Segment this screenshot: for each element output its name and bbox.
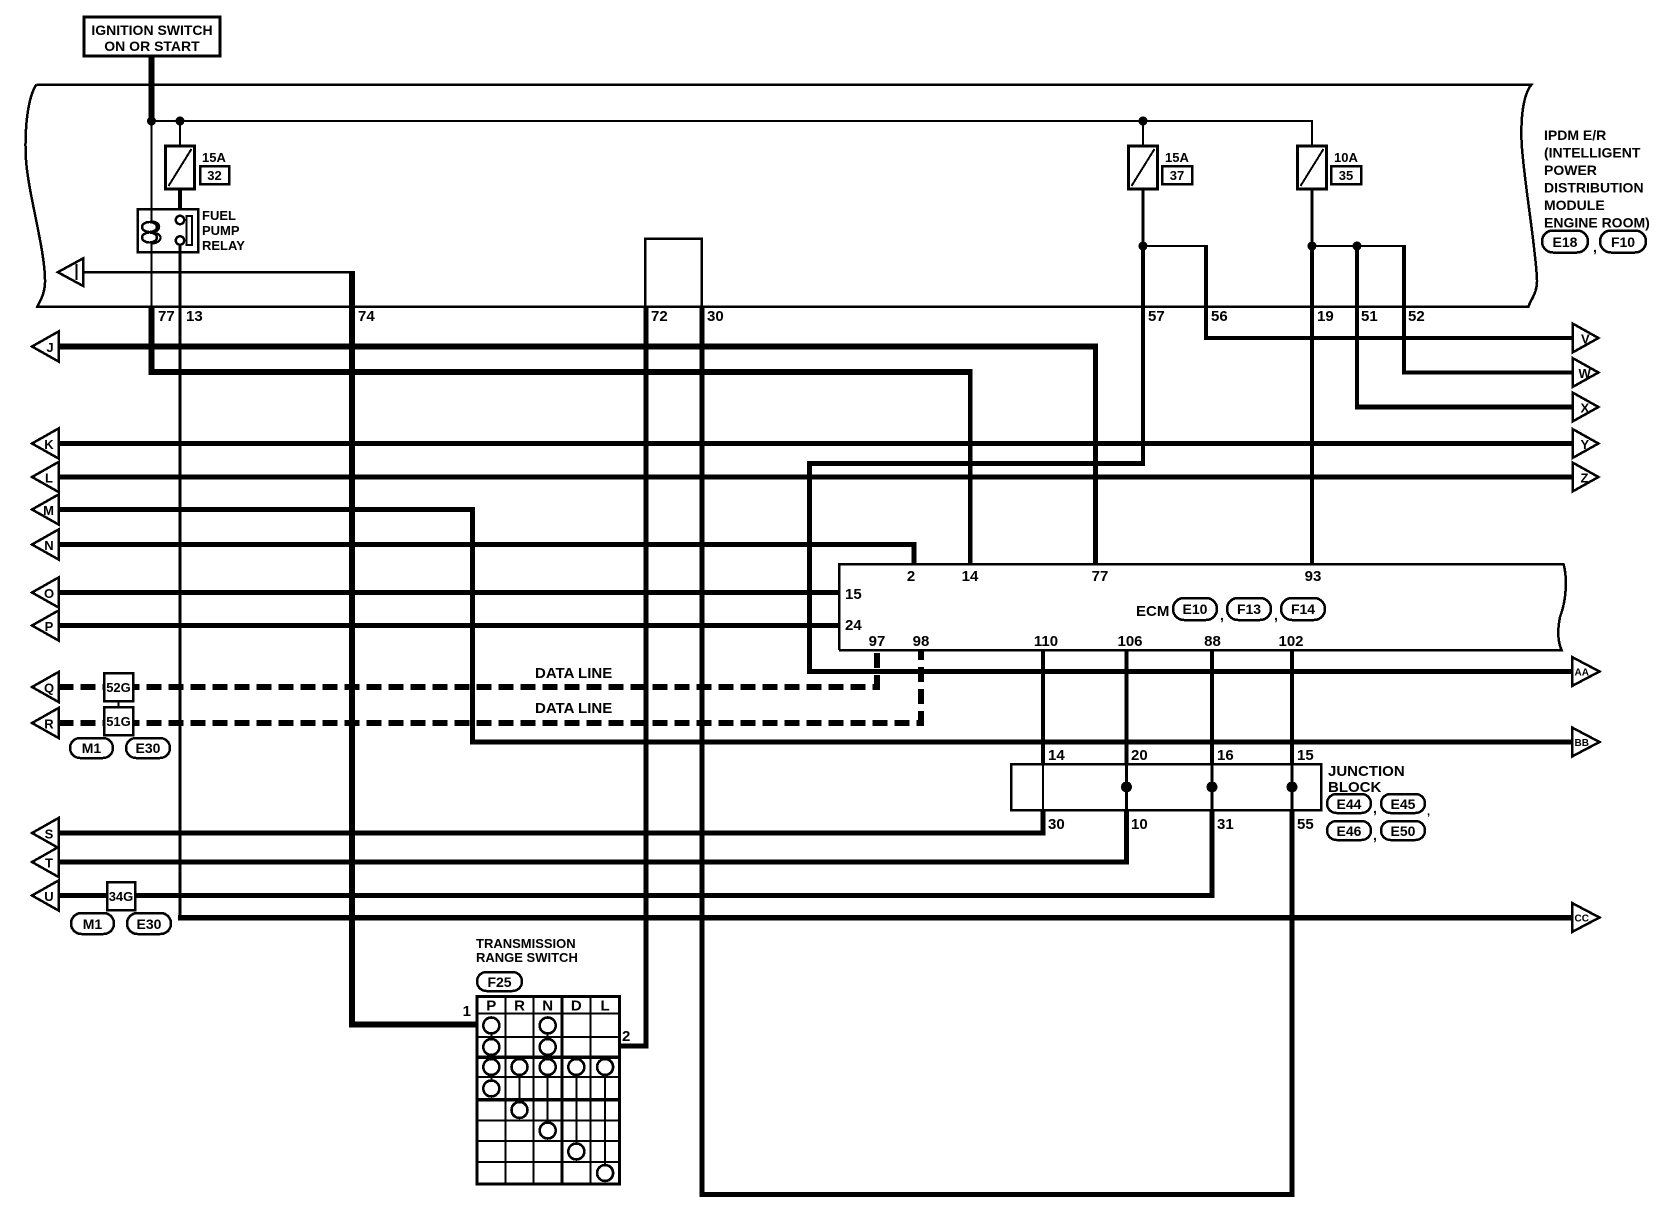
svg-text:14: 14 [962,568,979,585]
wire JB internal 16-31 [1211,764,1214,810]
IPDM bottom pin labels [158,308,1425,325]
wire 74 vertical [349,271,355,1027]
svg-text:P: P [45,619,54,634]
wire 30 vertical [700,307,705,1198]
svg-text:F10: F10 [1611,234,1635,250]
svg-text:F13: F13 [1237,601,1261,617]
wire BB horizontal [470,739,1574,744]
transmission range switch grid [477,997,620,1185]
wire U to JB pin 31 [59,893,1215,898]
wire 30 bottom horizontal [700,1192,1295,1197]
node junction dot ignition/bus [147,117,156,126]
connector L [32,462,59,492]
connector CC arrow [1572,903,1600,932]
wire JB internal 20-10 [1125,764,1128,810]
TRS column headers [486,998,609,1015]
ECM block outline [839,564,1566,650]
svg-text:ENGINE ROOM): ENGINE ROOM) [1544,215,1650,231]
svg-text:IPDM E/R: IPDM E/R [1544,127,1606,143]
svg-text:DATA LINE: DATA LINE [535,700,612,717]
ignition switch box [84,17,220,56]
svg-text:F14: F14 [1291,601,1315,617]
wire fuse37 down to node [1142,189,1145,246]
svg-text:14: 14 [1048,747,1065,764]
svg-text:P: P [486,998,496,1015]
svg-text:,: , [1274,607,1278,623]
connector oval E50 [1381,821,1425,840]
ECM bottom pin labels [869,633,1304,650]
svg-text:D: D [571,998,582,1015]
svg-text:RELAY: RELAY [202,238,245,253]
connector oval E46 [1327,821,1377,843]
svg-text:32: 32 [207,168,221,183]
connector J [32,332,59,362]
connector oval E30 (upper) [126,738,170,758]
svg-text:RANGE SWITCH: RANGE SWITCH [476,950,578,965]
svg-text:24: 24 [845,617,862,634]
svg-text:W: W [1579,366,1592,381]
node dot JB 20-10 [1121,782,1132,793]
label JUNCTION BLOCK [1328,763,1405,796]
wire T to JB pin 10 [59,860,1129,865]
wire 77 riser to ECM pin 14 [968,369,973,564]
svg-text:31: 31 [1217,816,1234,833]
svg-text:N: N [44,538,53,553]
wire 57 below IPDM [1141,307,1145,467]
wire 74 into TRS pin 1 [349,1022,477,1028]
connector BB arrow [1572,728,1600,757]
svg-text:U: U [44,889,53,904]
junction block outline [1011,764,1321,810]
svg-text:16: 16 [1217,747,1234,764]
svg-text:56: 56 [1211,308,1228,325]
svg-text:O: O [44,586,54,601]
svg-text:,: , [1373,827,1377,843]
connector Q [32,672,59,702]
svg-text:CC: CC [1575,914,1589,925]
wire O to ECM pin 15 [59,590,840,595]
svg-text:ON OR START: ON OR START [104,38,200,54]
wire 77 vertical below IPDM [149,307,155,376]
connector oval E30 (lower) [127,913,171,934]
svg-text:MODULE: MODULE [1544,197,1605,213]
svg-text:30: 30 [1048,816,1065,833]
connector V arrow [1573,324,1599,353]
svg-text:106: 106 [1117,633,1142,650]
svg-text:15A: 15A [1165,150,1189,165]
wire 56 to V arrow [1204,336,1574,340]
node junction dot 57/56 [1139,242,1148,251]
wire L to Z arrow [59,475,1575,480]
svg-text:52: 52 [1408,308,1425,325]
splice 51G box [104,707,133,735]
svg-text:,: , [1427,806,1430,818]
svg-text:X: X [1581,401,1590,416]
svg-text:97: 97 [869,633,886,650]
connector oval E10 [1173,598,1224,623]
svg-text:1: 1 [463,1003,471,1020]
svg-text:20: 20 [1131,747,1148,764]
connector oval E45 [1381,794,1430,818]
JB bottom pin labels [1048,816,1314,833]
svg-text:N: N [542,998,553,1015]
TRS contact circles [483,1018,613,1182]
svg-text:102: 102 [1278,633,1303,650]
svg-text:POWER: POWER [1544,162,1597,178]
connector Z arrow [1573,463,1599,492]
wire S to JB pin 30 [59,831,1046,836]
svg-text:2: 2 [622,1028,630,1045]
ECM left pin labels [845,586,862,634]
svg-text:,: , [1593,239,1597,255]
svg-text:DATA LINE: DATA LINE [535,665,612,682]
svg-text:51: 51 [1361,308,1378,325]
svg-text:V: V [1581,332,1590,347]
svg-text:10: 10 [1131,816,1148,833]
svg-text:E30: E30 [136,740,161,756]
wire 55 riser to junction block [1290,810,1295,1197]
svg-text:Z: Z [1581,471,1589,486]
wire Q data line (dashed) to ECM pin 97 [59,650,878,690]
svg-text:19: 19 [1317,308,1334,325]
svg-text:M1: M1 [82,740,102,756]
wire 13 relay to IPDM edge (thin) [179,244,182,307]
svg-text:35: 35 [1339,168,1353,183]
wire ignition feed riser [149,56,155,121]
svg-text:R: R [44,717,54,732]
splice 34G box [107,882,135,910]
svg-text:E10: E10 [1183,601,1208,617]
svg-text:110: 110 [1034,633,1058,650]
wire ECM 106 to JB pin 20 [1124,650,1128,764]
svg-text:E18: E18 [1553,234,1578,250]
svg-text:55: 55 [1297,816,1314,833]
svg-text:Y: Y [1581,437,1590,452]
connector R [32,708,59,738]
connector W arrow [1573,358,1599,387]
svg-text:51G: 51G [106,714,131,729]
svg-text:15: 15 [845,586,862,603]
svg-text:2: 2 [907,568,915,585]
wire N to ECM pin 2 [59,542,917,547]
IPDM label block [1544,127,1650,231]
wire AA horizontal [807,669,1574,674]
wire 77 coil return (thin, inside IPDM) [151,252,153,307]
wire P to ECM pin 24 [59,623,840,628]
svg-text:E50: E50 [1391,823,1416,839]
wire 19 vertical to ECM pin 93 [1310,246,1314,564]
svg-text:E46: E46 [1337,823,1362,839]
wire 51 to X arrow [1355,405,1574,410]
connector oval M1 (upper) [70,738,113,758]
svg-text:DISTRIBUTION: DISTRIBUTION [1544,180,1644,196]
svg-text:IGNITION SWITCH: IGNITION SWITCH [91,22,212,38]
wire fuse35 down to node [1311,189,1314,246]
connector T [32,847,59,877]
fuse 37 (15A) [1129,121,1193,189]
connector K [32,429,59,459]
connector oval E44 [1327,794,1377,816]
svg-text:S: S [45,827,54,842]
wire 57 horizontal to x810 [807,461,1145,466]
wire 51 vertical [1355,246,1359,410]
svg-text:J: J [46,340,53,355]
TRS contact links [491,1030,605,1168]
connector oval F10 [1600,231,1646,253]
wire 51/52 branch horizontal [1312,245,1406,247]
wire 56 vertical [1204,245,1208,338]
svg-text:34G: 34G [109,889,134,904]
svg-text:93: 93 [1305,568,1322,585]
connector P [32,611,59,641]
svg-text:72: 72 [651,308,668,325]
svg-text:M: M [43,503,54,518]
svg-text:77: 77 [1092,568,1109,585]
JB top pin labels [1048,747,1314,764]
svg-text:77: 77 [158,308,175,325]
node junction dot 51 [1353,242,1362,251]
svg-text:30: 30 [707,308,724,325]
wire J to ECM pin 77 [59,344,1099,350]
wire ECM 102 to JB pin 15 [1290,650,1294,764]
connector N [32,530,59,560]
svg-text:L: L [45,471,53,486]
splice 52G box [104,673,133,701]
svg-text:,: , [1220,607,1224,623]
svg-text:88: 88 [1204,633,1221,650]
fuse 35 (10A) [1298,121,1362,189]
wire 52 vertical [1402,245,1406,375]
node junction dot fuse37 tap [1139,117,1148,126]
wire 77 horizontal to ECM pin 14 [149,369,973,375]
connector oval F25 [477,972,522,991]
connector oval F13 [1227,598,1278,623]
svg-text:R: R [514,998,525,1015]
node junction dot fuse32 tap [176,117,185,126]
svg-text:10A: 10A [1334,150,1358,165]
svg-text:74: 74 [358,308,375,325]
connector S [32,818,59,848]
svg-text:ECM: ECM [1136,603,1169,620]
connector oval F14 [1281,598,1325,620]
wire JB internal 14-30 (thin) [1042,764,1044,810]
connector M [32,495,59,525]
svg-text:E45: E45 [1391,796,1416,812]
wire JB internal 15-55 [1291,764,1294,810]
svg-text:57: 57 [1148,308,1165,325]
wire ECM 88 to JB pin 16 [1210,650,1214,764]
svg-text:E44: E44 [1337,796,1362,812]
svg-text:TRANSMISSION: TRANSMISSION [476,936,576,951]
wire M to BB [59,507,475,512]
svg-text:L: L [601,998,610,1015]
connector oval E18 [1542,231,1597,256]
node dot JB 15-55 [1287,782,1298,793]
wire 72 from TRS pin 2 [620,1044,649,1049]
wire K to Y arrow [59,441,1575,446]
svg-text:K: K [44,437,54,452]
svg-text:Q: Q [44,681,54,696]
connector AA arrow [1572,657,1600,686]
label TRANSMISSION RANGE SWITCH [476,936,578,965]
wire bus inside IPDM [151,120,1314,122]
ECM top pin labels [907,568,1322,585]
wire 13 to CC horizontal [178,915,1572,921]
svg-text:13: 13 [186,308,203,325]
fuse 32 (15A) [166,146,230,189]
svg-text:FUEL: FUEL [202,208,236,223]
wire 57 riser down to AA [807,461,812,674]
wire 56 branch horizontal [1143,245,1206,247]
svg-text:98: 98 [913,633,930,650]
svg-text:PUMP: PUMP [202,223,240,238]
svg-text:,: , [1373,800,1377,816]
splice link 52G-51G [118,701,120,707]
connector X arrow [1573,393,1599,422]
svg-text:F25: F25 [487,974,511,990]
svg-text:37: 37 [1170,168,1184,183]
wire 13 vertical below IPDM [179,307,182,918]
node dot JB 16-31 [1207,782,1218,793]
svg-text:15A: 15A [202,150,226,165]
connector Y arrow [1573,429,1599,458]
wire fuse32 tap [179,121,181,146]
wire ignition to relay coil (thin) [151,121,153,209]
wire 74 horizontal from I [83,271,352,274]
svg-text:E30: E30 [137,916,162,932]
svg-text:JUNCTION: JUNCTION [1328,763,1405,780]
IPDM E/R block outline [26,85,1538,307]
wire 57 vertical inside IPDM [1141,246,1145,307]
svg-text:M1: M1 [83,916,103,932]
wire ECM 110 to JB pin 14 [1041,650,1045,764]
connector I triangle inside IPDM [58,258,84,286]
svg-text:AA: AA [1575,668,1589,679]
node junction dot 19 [1308,242,1317,251]
svg-text:BB: BB [1575,738,1589,749]
connector oval M1 (lower) [71,913,114,934]
svg-text:15: 15 [1297,747,1314,764]
wire 72 vertical [644,307,649,1049]
svg-text:(INTELLIGENT: (INTELLIGENT [1544,145,1641,161]
fuel pump relay [138,208,246,253]
svg-text:52G: 52G [106,680,131,695]
connector O [32,578,59,608]
wire fuse32 to relay [178,189,182,216]
IPDM inner connector stub rect [645,239,702,307]
connector U [32,881,59,911]
wire R data line (dashed) to ECM pin 98 [59,650,922,726]
svg-text:T: T [45,856,53,871]
wire 52 to W arrow [1402,370,1574,374]
